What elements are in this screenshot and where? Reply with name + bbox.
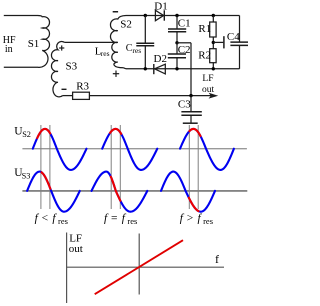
capacitor C1: [176, 16, 178, 29]
sampling marker lines g1: [40, 125, 42, 209]
U_S2 red highlight g1: [37, 129, 50, 138]
LF branch vertical: [190, 43, 192, 96]
U_S3 red highlight g1: [42, 172, 51, 189]
secondary coil S2 / L_res (with center tap): [110, 16, 126, 68]
polarity plus at S3 top: [59, 47, 64, 49]
wire HF in bottom lead: [4, 66, 38, 68]
svg-text:res: res: [127, 216, 137, 226]
svg-text:in: in: [5, 44, 13, 55]
U_S2 axis (top waveform zero line): [22, 148, 247, 150]
U_S2 red highlight g2: [110, 129, 121, 134]
junction dot C1 top: [175, 14, 178, 17]
svg-text:D1: D1: [154, 0, 167, 12]
U_S2 sine g1: [33, 129, 87, 170]
bottom rail (secondary bottom to D2 to corner): [124, 68, 127, 69]
svg-text:f: f: [122, 213, 127, 225]
wire midpoint to LF branch: [177, 42, 191, 44]
svg-text:D2: D2: [154, 53, 167, 65]
junction dot C_res top: [144, 14, 147, 17]
svg-text:S2: S2: [22, 130, 31, 139]
terminal bar: [223, 36, 225, 48]
sampling marker lines g3: [188, 125, 190, 209]
svg-text:f: f: [104, 213, 109, 225]
U_S3 sine g3: [161, 172, 215, 212]
resistor R1: [212, 16, 214, 23]
svg-text:C4: C4: [227, 31, 240, 43]
U_S3 sine g2: [92, 172, 148, 212]
svg-text:f: f: [180, 213, 185, 225]
stub R1/R2 midpoint to terminal: [213, 41, 223, 43]
junction dot C2 bottom: [175, 67, 178, 70]
U_S3 red highlight g3: [189, 198, 199, 211]
svg-text:f: f: [35, 213, 40, 225]
wire top rail (S2 top to D1 to R1 to corner): [126, 15, 240, 17]
svg-text:f: f: [52, 213, 57, 225]
wire center tap to S3: [65, 41, 118, 43]
polarity minus at S3 bottom: [62, 88, 67, 90]
junction dot R2 bottom: [212, 67, 215, 70]
svg-text:res: res: [132, 46, 141, 55]
polarity plus at L_res bottom: [113, 73, 119, 75]
svg-text:S3: S3: [22, 171, 31, 180]
wire HF in top lead: [4, 15, 38, 17]
svg-text:>: >: [187, 213, 194, 225]
svg-text:=: =: [111, 213, 118, 225]
tertiary coil S3: [51, 41, 64, 96]
U_S3 axis (bottom waveform zero line): [22, 190, 247, 192]
svg-text:res: res: [101, 49, 110, 58]
capacitor C_res: [144, 16, 146, 43]
primary coil S1: [38, 16, 50, 68]
svg-text:C2: C2: [178, 44, 191, 56]
resistor R2: [210, 49, 216, 63]
capacitor C2: [176, 43, 178, 54]
svg-text:R2: R2: [198, 49, 211, 61]
resistor R3: [63, 95, 73, 97]
capacitor C4 (in right branch): [239, 16, 241, 42]
U_S2 sine g2: [102, 129, 157, 170]
graph y-axis (LF out): [66, 233, 68, 304]
U_S3 sine g1: [27, 172, 80, 212]
sampling marker lines g2: [110, 125, 112, 209]
svg-text:S2: S2: [120, 19, 132, 31]
wire R3 to LF out line: [89, 95, 212, 97]
svg-text:res: res: [203, 216, 213, 226]
junction dot R1 top: [212, 14, 215, 17]
junction dot C1/C2 midpoint: [175, 41, 178, 44]
svg-text:LF: LF: [202, 74, 213, 84]
graph x-axis (f): [67, 266, 224, 268]
svg-text:C1: C1: [178, 17, 191, 29]
U_S3 red highlight g2: [111, 177, 121, 201]
svg-text:R1: R1: [198, 23, 211, 35]
polarity minus at S2 top: [113, 11, 118, 13]
capacitor C3: [190, 96, 192, 112]
svg-text:f: f: [215, 252, 219, 266]
junction dot R1/R2 midpoint: [212, 41, 215, 44]
svg-text:S1: S1: [28, 38, 40, 50]
junction dot C_res bottom: [144, 67, 147, 70]
discriminator S-curve (red): [95, 240, 183, 294]
svg-text:out: out: [69, 243, 83, 255]
diode D2: [153, 64, 155, 74]
svg-text:C3: C3: [178, 99, 191, 111]
diode D1: [155, 10, 163, 20]
svg-text:S3: S3: [66, 61, 78, 73]
graph f_res vertical marker: [138, 234, 140, 295]
svg-text:<: <: [42, 213, 49, 225]
svg-text:out: out: [202, 85, 215, 95]
svg-text:f: f: [198, 213, 203, 225]
svg-text:R3: R3: [76, 80, 89, 92]
U_S2 sine g3: [180, 129, 234, 170]
U_S2 red highlight g3: [189, 129, 200, 136]
junction dot LF line: [189, 94, 192, 97]
svg-text:res: res: [58, 216, 68, 226]
LF out arrowhead: [209, 93, 219, 99]
